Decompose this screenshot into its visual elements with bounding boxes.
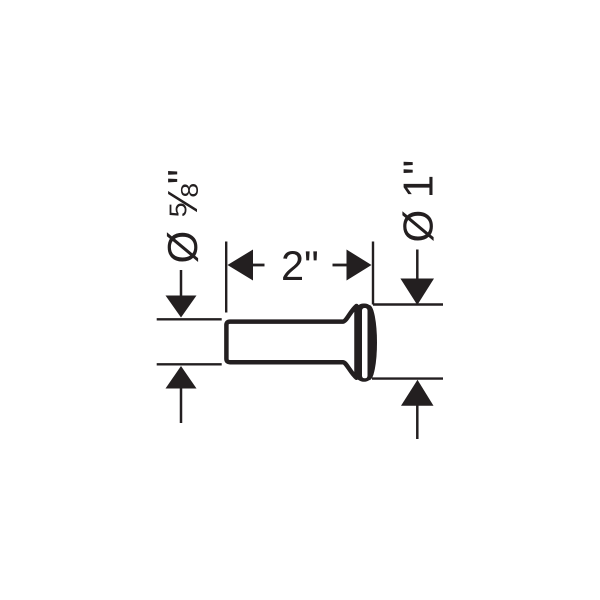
hook flange rim (elliptical bulge) (362, 305, 377, 380)
dia 1 lower extension line (372, 377, 443, 379)
dimension: 2 inch, right arrow (347, 250, 372, 281)
dimension: 2 inch, left arrow (228, 250, 254, 281)
dia 5/8 lower (up) arrow (166, 366, 197, 389)
hook body (cylinder with fillet to flange) (226, 306, 356, 378)
dia 1 lower (up) arrow (401, 380, 434, 406)
hook flange cap (357, 306, 372, 380)
dia 1 upper extension line (373, 303, 443, 305)
dimension: 2 inch, right extension line (372, 242, 374, 305)
dia 5/8 lower extension line (157, 363, 222, 365)
dimension: 2 inch, left extension line (225, 242, 227, 313)
dia 1 upper (down) arrow (416, 250, 419, 281)
dimension label: dia 1 inch (rotated) (402, 162, 433, 241)
flange highlight stripe (362, 308, 368, 378)
dimension label: 2" (283, 251, 317, 280)
dia 5/8 upper extension line (157, 318, 222, 320)
dia 5/8 upper (down) arrow (180, 270, 183, 297)
dimension label: dia 5/8 inch (rotated) (167, 171, 198, 262)
